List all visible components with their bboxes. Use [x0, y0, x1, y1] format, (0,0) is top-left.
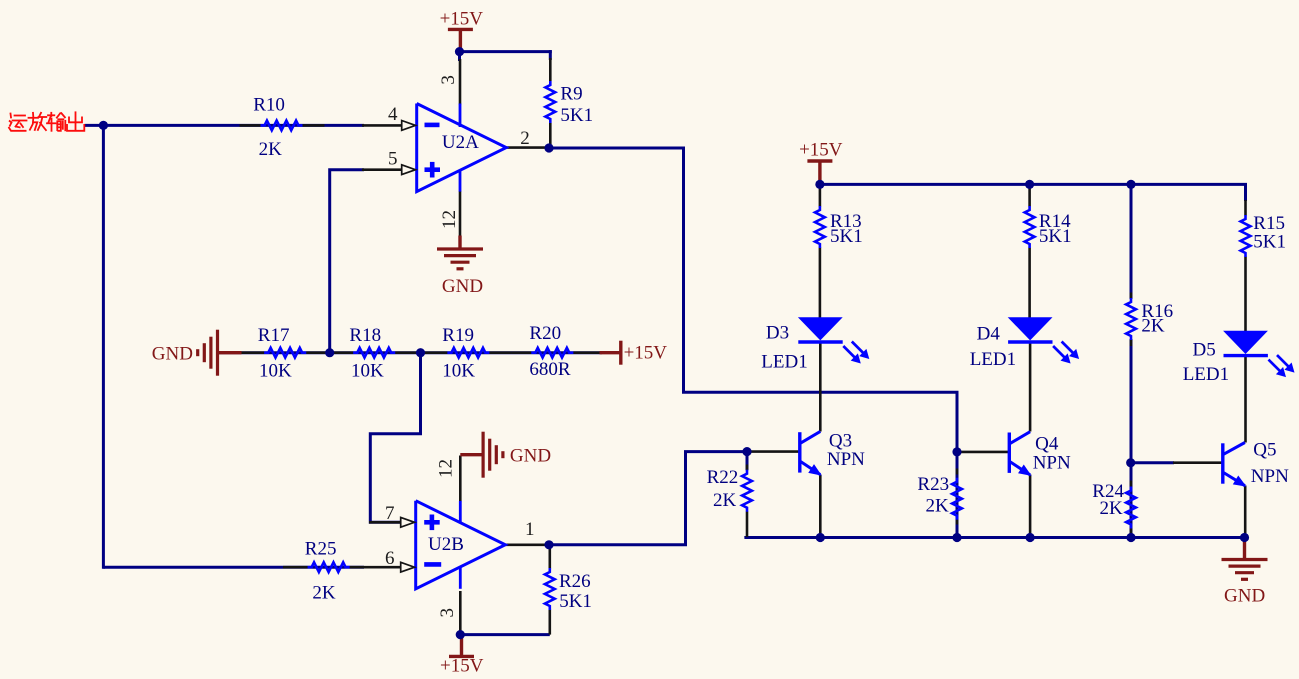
svg-text:D4: D4 — [977, 324, 1001, 345]
svg-text:7: 7 — [385, 503, 395, 524]
svg-text:3: 3 — [438, 75, 459, 85]
svg-text:D5: D5 — [1193, 340, 1216, 361]
svg-text:2: 2 — [520, 128, 530, 149]
svg-text:+15V: +15V — [624, 343, 668, 364]
svg-text:GND: GND — [510, 445, 551, 466]
svg-text:LED1: LED1 — [1183, 364, 1229, 385]
svg-text:2K: 2K — [1100, 498, 1124, 519]
svg-text:10K: 10K — [442, 360, 475, 381]
svg-text:NPN: NPN — [1251, 466, 1289, 487]
svg-text:1: 1 — [525, 519, 535, 540]
svg-text:NPN: NPN — [827, 449, 865, 470]
svg-text:D3: D3 — [766, 322, 789, 343]
svg-text:R23: R23 — [917, 474, 949, 495]
svg-text:R17: R17 — [258, 325, 290, 346]
svg-text:NPN: NPN — [1033, 453, 1071, 474]
svg-text:2K: 2K — [259, 139, 283, 160]
svg-text:R26: R26 — [559, 571, 591, 592]
svg-text:R20: R20 — [529, 323, 561, 344]
svg-text:10K: 10K — [259, 360, 292, 381]
svg-text:GND: GND — [442, 276, 483, 297]
svg-text:3: 3 — [437, 608, 458, 618]
svg-text:6: 6 — [385, 548, 395, 569]
svg-text:LED1: LED1 — [970, 349, 1016, 370]
svg-text:+15V: +15V — [799, 139, 843, 160]
svg-text:U2A: U2A — [442, 132, 479, 153]
svg-text:5K1: 5K1 — [560, 105, 593, 126]
svg-text:+15V: +15V — [440, 656, 484, 677]
svg-text:12: 12 — [436, 459, 457, 478]
svg-text:5: 5 — [388, 149, 398, 170]
svg-text:GND: GND — [152, 343, 193, 364]
svg-text:2K: 2K — [713, 490, 737, 511]
svg-text:5K1: 5K1 — [1253, 232, 1286, 253]
svg-text:R25: R25 — [305, 538, 337, 559]
svg-text:+15V: +15V — [440, 8, 484, 29]
svg-text:680R: 680R — [529, 359, 571, 380]
svg-text:5K1: 5K1 — [1039, 226, 1072, 247]
svg-text:U2B: U2B — [428, 534, 464, 555]
svg-text:12: 12 — [439, 210, 460, 229]
svg-text:10K: 10K — [351, 360, 384, 381]
svg-text:GND: GND — [1224, 586, 1265, 607]
svg-text:R19: R19 — [442, 325, 474, 346]
svg-text:5K1: 5K1 — [559, 591, 592, 612]
svg-text:Q4: Q4 — [1035, 434, 1059, 455]
svg-text:2K: 2K — [312, 583, 336, 604]
svg-text:R9: R9 — [560, 84, 582, 105]
svg-text:R18: R18 — [349, 325, 381, 346]
svg-text:2K: 2K — [1141, 315, 1165, 336]
svg-text:5K1: 5K1 — [830, 226, 863, 247]
svg-text:LED1: LED1 — [761, 352, 807, 373]
svg-text:R10: R10 — [253, 94, 285, 115]
svg-text:4: 4 — [388, 104, 398, 125]
svg-text:Q5: Q5 — [1253, 439, 1276, 460]
svg-text:2K: 2K — [926, 496, 950, 517]
svg-text:R22: R22 — [707, 467, 739, 488]
